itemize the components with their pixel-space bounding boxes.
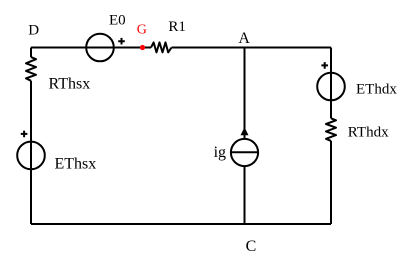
svg-text:EThdx: EThdx (356, 82, 397, 98)
svg-text:E0: E0 (109, 13, 126, 29)
svg-text:C: C (246, 238, 257, 255)
wire top-right: R1 to top-right corner (through node A) (172, 47, 332, 49)
resistor R1 (151, 19, 186, 52)
current source ig (214, 127, 259, 166)
voltage source EThsx (17, 131, 96, 173)
svg-text:ig: ig (214, 144, 226, 161)
wire middle: ig down to bottom wire (244, 167, 246, 224)
voltage source EThdx (317, 62, 397, 100)
wire right: RThdx down to bottom-right corner (330, 141, 332, 224)
svg-text:G: G (137, 23, 147, 38)
resistor RThsx (26, 57, 90, 93)
wire middle: node A down to ig arrow and circle (244, 48, 246, 139)
svg-text:RThdx: RThdx (348, 124, 389, 140)
svg-text:A: A (238, 30, 250, 47)
wire bottom: bottom-left corner to bottom-right corner (31, 223, 331, 225)
wire top-left: D corner to R1 (through E0) (31, 47, 151, 49)
voltage source E0 (86, 13, 125, 62)
svg-text:R1: R1 (168, 19, 186, 35)
svg-text:D: D (28, 23, 39, 39)
wire right: top-right corner down to RThdx (through EThdx) (330, 48, 332, 119)
svg-text:EThsx: EThsx (55, 156, 97, 173)
node G (red) (137, 23, 147, 51)
wire left: RThsx down to bottom-left corner (through EThsx) (30, 81, 32, 224)
wire left: D corner down to RThsx (30, 48, 32, 58)
svg-text:RThsx: RThsx (49, 76, 91, 93)
resistor RThdx (326, 118, 389, 141)
